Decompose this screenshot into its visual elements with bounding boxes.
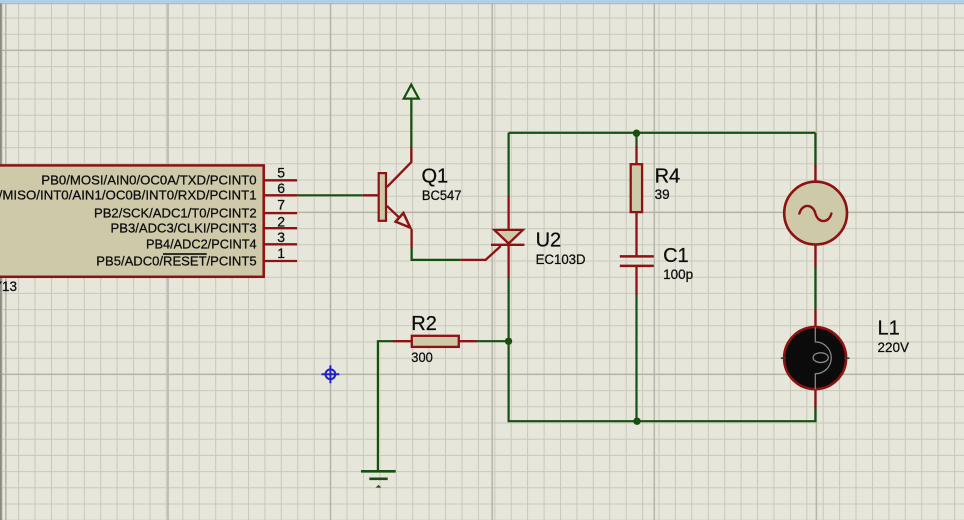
svg-text:1: 1: [277, 245, 285, 261]
svg-text:EC103D: EC103D: [536, 252, 586, 267]
svg-text:C1: C1: [663, 245, 689, 267]
svg-text:PB1/MISO/INT0/AIN1/OC0B/INT0/R: PB1/MISO/INT0/AIN1/OC0B/INT0/RXD/PCINT1: [0, 189, 257, 203]
svg-text:5: 5: [277, 164, 285, 180]
svg-text:3: 3: [277, 229, 285, 245]
svg-text:100p: 100p: [663, 267, 693, 282]
svg-text:U2: U2: [536, 230, 562, 252]
svg-text:39: 39: [655, 187, 670, 202]
svg-text:PB4/ADC2/PCINT4: PB4/ADC2/PCINT4: [146, 238, 257, 252]
svg-text:R2: R2: [411, 313, 437, 335]
svg-text:PB5/ADC0/RESET/PCINT5: PB5/ADC0/RESET/PCINT5: [96, 254, 256, 268]
svg-text:220V: 220V: [878, 340, 910, 355]
svg-text:300: 300: [411, 350, 433, 365]
svg-text:ATTINY13: ATTINY13: [0, 279, 17, 294]
svg-text:7: 7: [277, 197, 285, 213]
svg-text:BC547: BC547: [422, 188, 462, 203]
svg-text:PB2/SCK/ADC1/T0/PCINT2: PB2/SCK/ADC1/T0/PCINT2: [94, 207, 257, 221]
svg-text:6: 6: [277, 180, 285, 196]
svg-text:2: 2: [277, 214, 285, 230]
svg-text:PB3/ADC3/CLKI/PCINT3: PB3/ADC3/CLKI/PCINT3: [111, 222, 257, 236]
svg-text:Q1: Q1: [422, 165, 449, 187]
svg-text:PB0/MOSI/AIN0/OC0A/TXD/PCINT0: PB0/MOSI/AIN0/OC0A/TXD/PCINT0: [41, 174, 256, 188]
svg-text:R4: R4: [655, 165, 681, 187]
svg-text:L1: L1: [878, 317, 900, 339]
